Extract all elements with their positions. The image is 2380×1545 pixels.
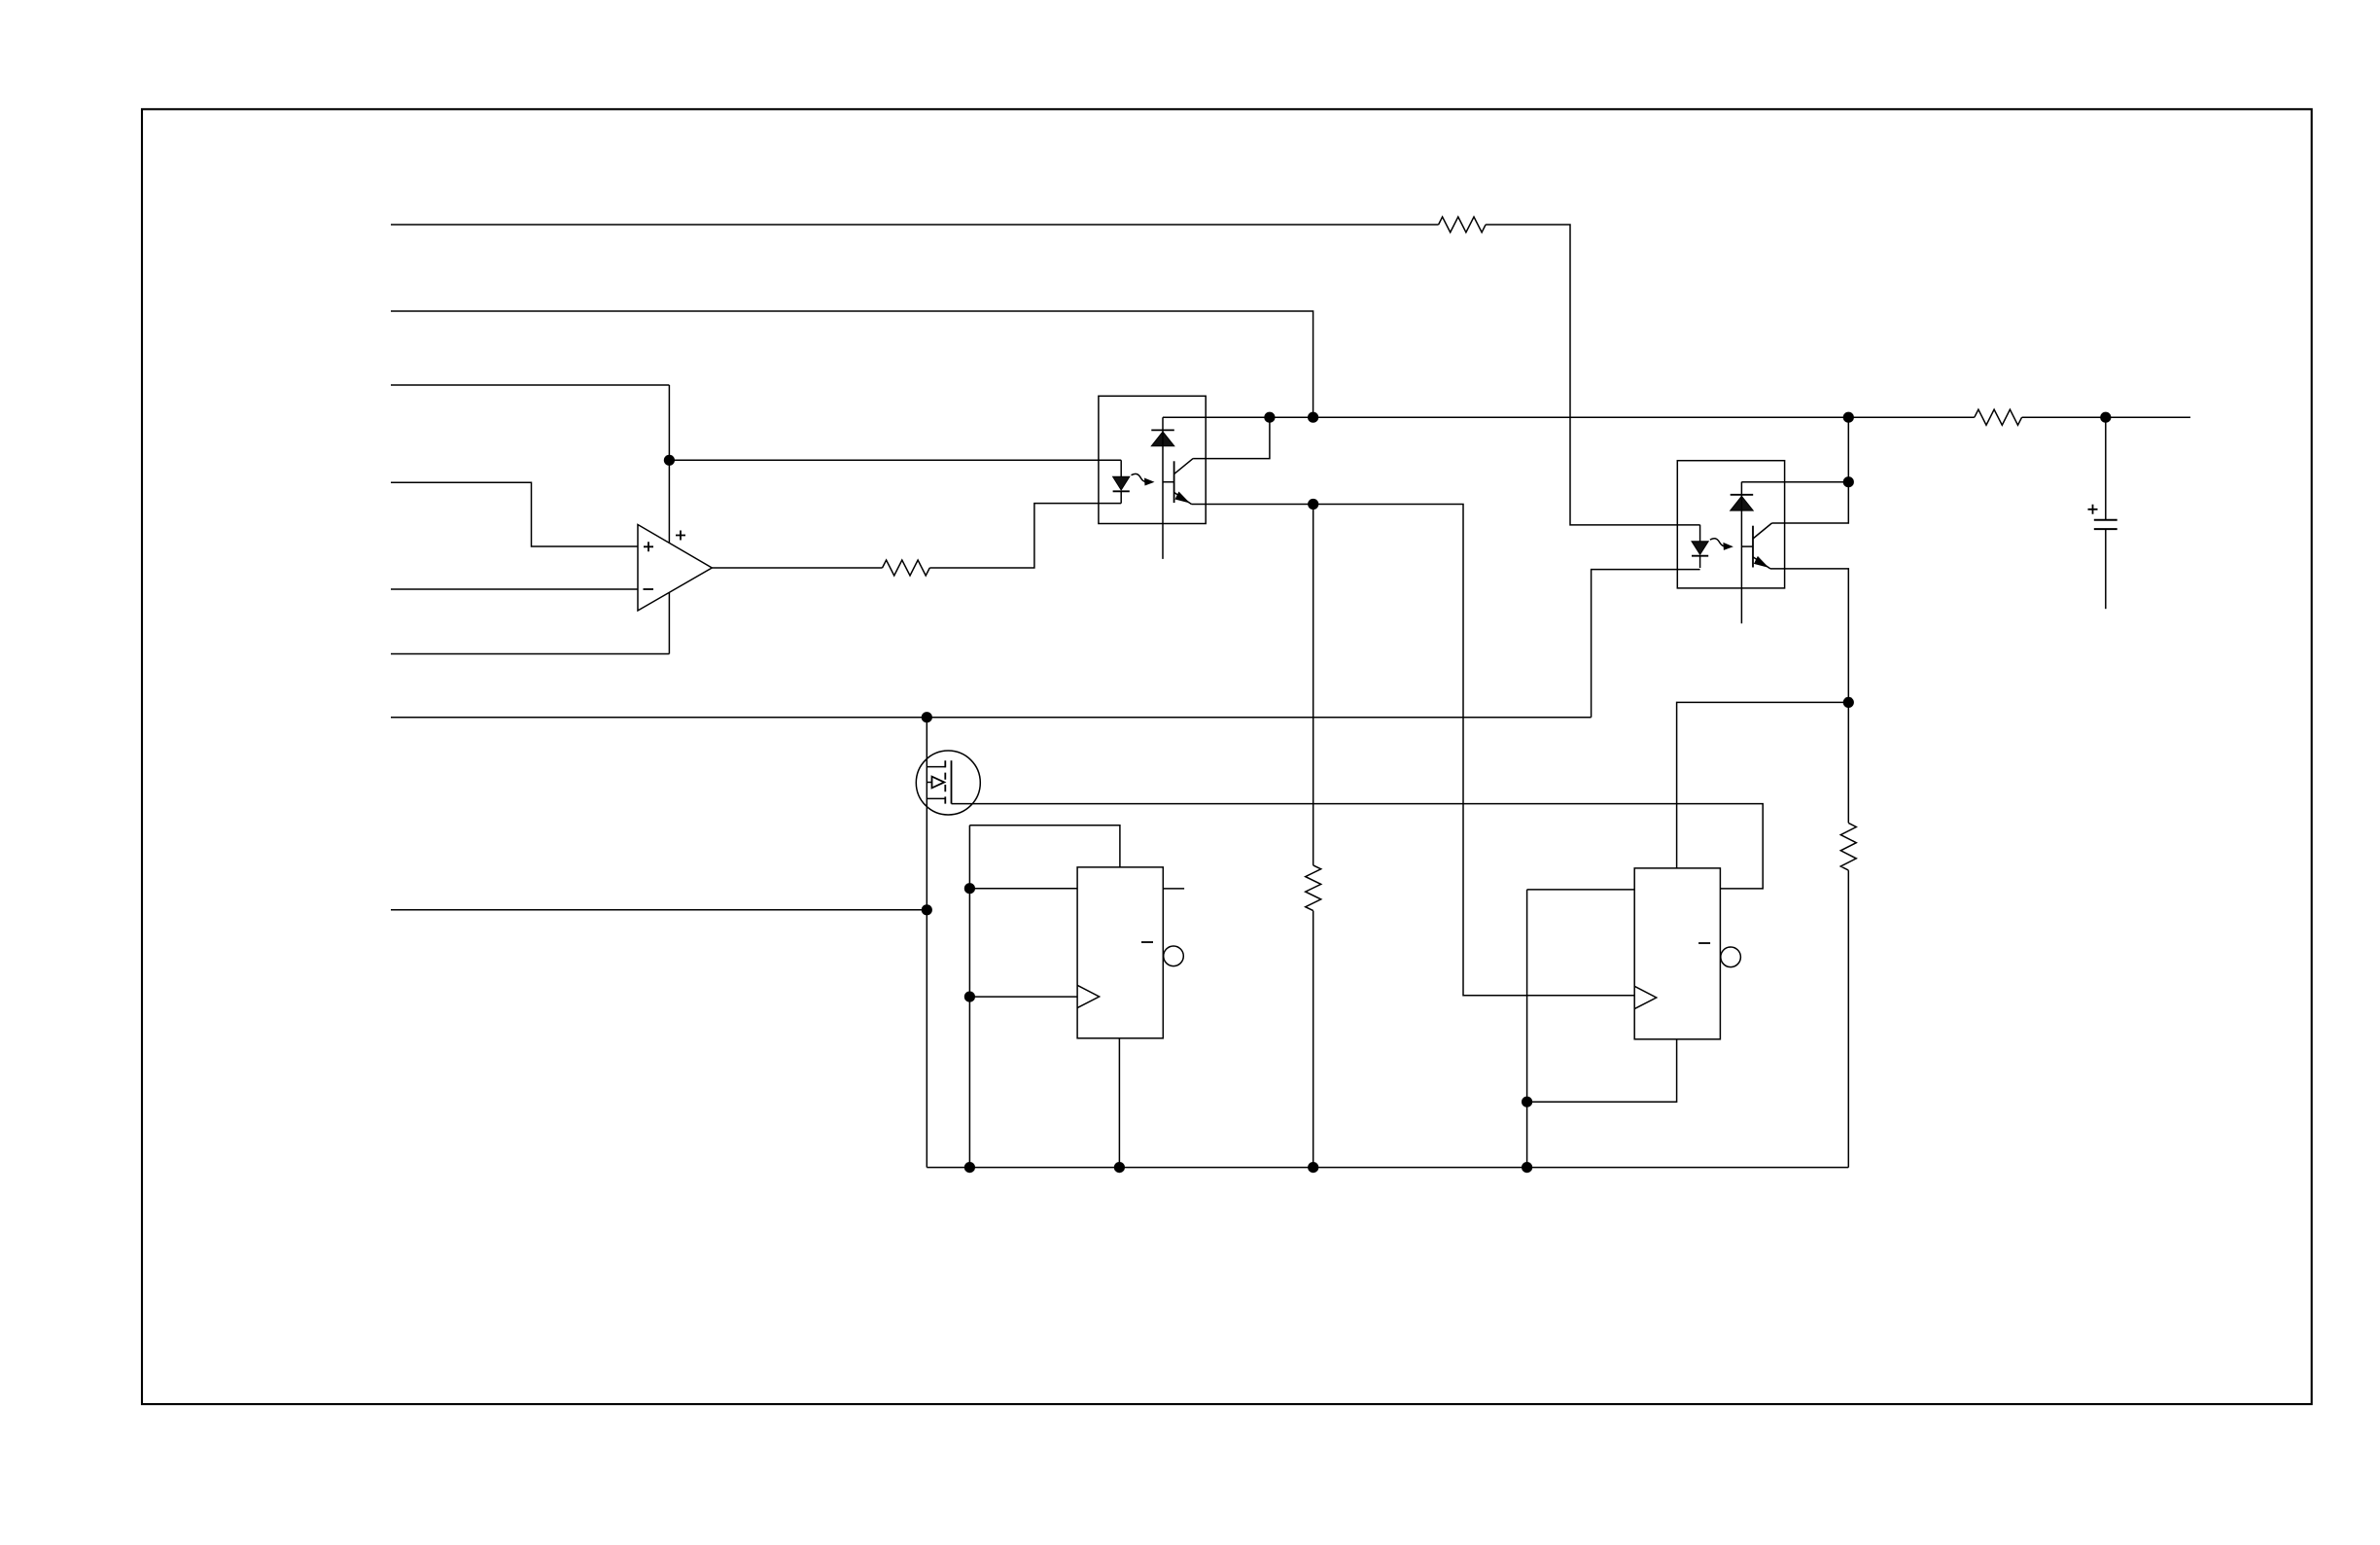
- optocoupler U2 zener cathode bar: [1151, 429, 1174, 431]
- wire FF1 top pin loop: [969, 825, 1120, 867]
- MOSFET Q1 bulk lead: [927, 782, 931, 784]
- flip-flop U4 Qbar bubble: [1164, 946, 1184, 966]
- wire net3 input to op-amp supply rail: [391, 384, 669, 386]
- wire LED anode net from node A to opto U2: [669, 459, 1121, 461]
- wire FF2 left pin: [1527, 889, 1635, 891]
- optocoupler U2 transistor base bar: [1173, 461, 1175, 503]
- wire U2 collector to main net: [1193, 417, 1270, 458]
- node bus/FF1 bottom pin: [1114, 1162, 1125, 1173]
- wire R3 rail top: [1312, 505, 1314, 865]
- optocoupler U3 LED anode lead: [1699, 525, 1701, 542]
- optocoupler U3 zener triangle: [1731, 496, 1754, 510]
- wire R4 to end: [2022, 416, 2190, 418]
- wire net7 riser to opto U3 LED cathode: [1592, 570, 1700, 718]
- resistor R2: [883, 560, 930, 576]
- wire net1 R1 to riser down to opto U3 LED anode: [1486, 225, 1700, 525]
- MOSFET Q1 drain lead: [927, 766, 945, 768]
- flip-flop U5 clock chevron: [1634, 986, 1657, 1008]
- node emitter-run/R3 junction: [1308, 499, 1318, 509]
- optocoupler U2 LED cathode lead: [1120, 491, 1122, 503]
- wire FF1 clock wire: [969, 996, 1077, 998]
- wire net2 input: [391, 311, 1313, 417]
- op-amp U1 body: [638, 525, 712, 612]
- wire net9 input to MOSFET rail: [391, 909, 927, 911]
- node net9/MOSFET rail junction: [922, 904, 932, 915]
- node FF1 rail/left pin: [964, 883, 975, 894]
- optocoupler U3 transistor base bar: [1752, 526, 1754, 568]
- wire net7 input: [391, 717, 1592, 719]
- op-amp U1 - input label: [644, 588, 654, 590]
- node main/C1 junction: [2100, 412, 2111, 423]
- optocoupler U2 transistor emitter with arrow: [1174, 492, 1192, 504]
- wire bottom bus: [927, 1167, 1848, 1169]
- wire main net from U2 zener to R4: [1163, 416, 1975, 418]
- optocoupler U2 LED cathode bar: [1113, 490, 1130, 492]
- optocoupler U3 transistor collector: [1753, 523, 1772, 539]
- wire R3 rail bottom: [1312, 911, 1314, 1168]
- optocoupler U3 LED cathode lead: [1699, 556, 1701, 568]
- wire FF2 top pin: [1677, 702, 1849, 868]
- resistor R1: [1439, 217, 1487, 232]
- wire net5 input to op-amp - input: [391, 588, 638, 590]
- wire gate to FF2 right pin: [952, 804, 1764, 889]
- MOSFET Q1 channel dashed bar: [944, 760, 946, 804]
- op-amp U1 + input label: [644, 542, 653, 551]
- optocoupler U2 transistor base lead: [1163, 481, 1174, 483]
- optocoupler U3 LED cathode bar: [1692, 555, 1708, 557]
- MOSFET Q1 source lead: [927, 797, 945, 799]
- flip-flop U4 Qbar overline label: [1141, 941, 1153, 943]
- optocoupler U3 zener cathode bar: [1731, 494, 1754, 496]
- optocoupler U3 transistor base lead: [1741, 545, 1753, 547]
- optocoupler U2 light arrow: [1132, 474, 1147, 481]
- MOSFET Q1 bulk arrow: [932, 777, 945, 789]
- node main wire / opto U3 riser junction: [1843, 412, 1854, 423]
- border frame: [142, 109, 2312, 1404]
- wire U3 emitter to right rail: [1770, 569, 1848, 824]
- flip-flop U4 box: [1077, 867, 1163, 1038]
- node FF2 left rail/bottom pin: [1522, 1097, 1532, 1107]
- node bus/FF1 rail: [964, 1162, 975, 1173]
- resistor R3: [1306, 865, 1321, 911]
- node main/U2-collector junction: [1264, 412, 1275, 423]
- optocoupler U3 light arrow: [1710, 539, 1726, 546]
- wire R5 to bus: [1847, 870, 1849, 1168]
- capacitor C1 plates: [2094, 520, 2117, 529]
- capacitor C1 top lead: [2105, 417, 2107, 520]
- wire net1 top input to R1: [391, 224, 1439, 226]
- optocoupler U3 transistor emitter with arrow: [1753, 557, 1770, 569]
- flip-flop U5 box: [1634, 868, 1720, 1039]
- wire net4 input to op-amp + input: [391, 482, 638, 546]
- optocoupler U2 zener vertical lead: [1162, 417, 1164, 559]
- node FF1 rail/clock: [964, 992, 975, 1002]
- resistor R4: [1975, 409, 2022, 425]
- wire net6 input: [391, 653, 669, 655]
- wire U3 zener to node B: [1741, 481, 1848, 483]
- wire op-amp vertical rail: [668, 385, 670, 654]
- flip-flop U5 Qbar bubble: [1721, 947, 1741, 967]
- node main/net2 junction: [1308, 412, 1318, 423]
- optocoupler U3 box: [1677, 461, 1784, 588]
- optocoupler U3 zener vertical lead: [1740, 482, 1742, 624]
- capacitor C1 + label: [2088, 505, 2098, 514]
- node FF2 top-pin tee: [1843, 697, 1854, 708]
- wire FF1 rail: [968, 825, 970, 1168]
- wire MOSFET rail: [926, 718, 927, 1168]
- node net7/MOSFET rail junction: [922, 712, 932, 722]
- wire FF1 bottom pin: [1118, 1038, 1120, 1168]
- wire R2 to opto U2 LED cathode: [929, 504, 1121, 568]
- optocoupler U2 LED anode lead: [1120, 460, 1122, 476]
- node bus/R3 rail: [1308, 1162, 1318, 1173]
- capacitor C1 bottom lead: [2105, 529, 2107, 609]
- wire op-amp output to R2: [712, 567, 882, 569]
- wire riser main to U3 collector: [1772, 417, 1849, 523]
- optocoupler U2 transistor collector: [1174, 459, 1194, 474]
- wire FF2 bottom pin: [1527, 1038, 1677, 1102]
- op-amp U1 supply + label: [676, 531, 685, 541]
- node A junction op-amp rail / LED anode wire: [664, 455, 675, 466]
- MOSFET Q1 circle: [916, 751, 980, 815]
- optocoupler U2 box: [1099, 396, 1206, 523]
- wire FF1 right stub: [1163, 888, 1184, 890]
- flip-flop U4 clock chevron: [1077, 985, 1100, 1007]
- flip-flop U5 Qbar overline label: [1698, 942, 1710, 944]
- optocoupler U3 LED triangle: [1692, 542, 1708, 555]
- resistor R5: [1840, 823, 1856, 870]
- MOSFET Q1 gate bar: [951, 760, 953, 803]
- optocoupler U2 zener triangle: [1151, 432, 1174, 446]
- wire FF1 left pin: [969, 888, 1077, 890]
- wire FF2 left rail: [1526, 890, 1528, 1168]
- node B zener/main riser junction: [1843, 476, 1854, 487]
- optocoupler U2 LED triangle: [1113, 476, 1130, 490]
- wire U2 emitter run to FF2 clock: [1192, 505, 1635, 996]
- node bus/FF2 left rail: [1522, 1162, 1532, 1173]
